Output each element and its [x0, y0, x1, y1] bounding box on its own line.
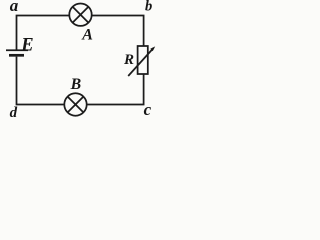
svg-text:B: B [70, 76, 82, 93]
svg-text:A: A [81, 27, 93, 44]
svg-text:R: R [123, 52, 134, 68]
svg-text:E: E [20, 36, 33, 56]
svg-text:b: b [145, 0, 152, 15]
svg-text:c: c [144, 100, 152, 119]
svg-text:a: a [10, 0, 19, 15]
svg-text:d: d [10, 105, 18, 121]
